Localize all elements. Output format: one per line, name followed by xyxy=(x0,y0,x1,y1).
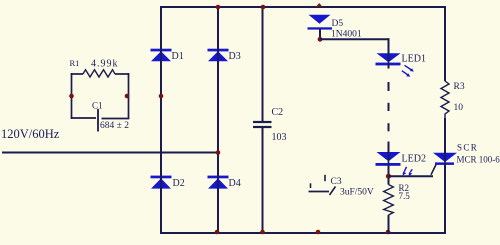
LED2 emission arrow 2 xyxy=(409,169,413,176)
capacitor C3 pin tick upper left xyxy=(310,183,312,188)
wire overlay through SCR xyxy=(444,153,446,166)
svg-text:LED1: LED1 xyxy=(402,54,426,65)
wire R3 to SCR xyxy=(444,118,446,153)
capacitor C1 box bottom-right wire xyxy=(102,118,130,120)
svg-text:C3: C3 xyxy=(331,177,342,187)
wire overlay through LED2 xyxy=(388,152,390,165)
svg-text:684 ± 2: 684 ± 2 xyxy=(100,121,129,131)
svg-text:120V/60Hz: 120V/60Hz xyxy=(1,127,60,141)
wire C2 column upper xyxy=(262,6,264,121)
svg-text:1N4001: 1N4001 xyxy=(331,30,362,40)
junction dot box left terminal xyxy=(69,94,74,99)
wire top rail xyxy=(160,6,446,8)
diode D3 xyxy=(208,49,229,62)
wire overlay through D2 xyxy=(160,175,162,189)
wire C2 column lower xyxy=(262,128,264,234)
capacitor C3 left wire xyxy=(309,191,330,193)
wire right vertical upper (top rail to R3) xyxy=(444,6,446,81)
LED1 emission arrow 1 xyxy=(405,65,414,71)
dashed wire segment 3 xyxy=(388,123,390,131)
junction dot top rail at C2 column xyxy=(261,5,266,10)
wire bottom rail xyxy=(160,232,446,234)
svg-text:C1: C1 xyxy=(92,101,103,111)
LED1 emission arrow 2 xyxy=(402,71,410,77)
R1/C1 box top-left wire stub xyxy=(71,73,83,75)
capacitor C3 curved plate xyxy=(330,187,336,196)
wire right vertical lower (SCR cathode to bottom rail) xyxy=(444,164,446,234)
resistor R3 zigzag xyxy=(441,81,449,118)
diode D4 xyxy=(208,176,229,189)
resistor R1 zigzag xyxy=(83,70,115,77)
R1/C1 box top-right wire stub xyxy=(115,73,129,75)
junction dot on left bridge column xyxy=(159,94,164,99)
capacitor C2 plate lower xyxy=(253,126,272,128)
LED2 xyxy=(376,152,401,166)
R1/C1 box left wire xyxy=(71,73,73,119)
wire overlay through D3 xyxy=(217,48,219,62)
wire R2 to bottom rail xyxy=(388,215,390,234)
wire overlay through D1 xyxy=(160,48,162,62)
junction dot bottom rail at R2 column xyxy=(386,230,391,235)
junction dot LED2/R2/gate node xyxy=(386,174,391,179)
LED2 emission arrow 1 xyxy=(403,167,407,176)
R1/C1 box right wire xyxy=(128,73,130,119)
wire LED2 cathode to R2 xyxy=(388,166,390,185)
junction dot bottom rail at C2 column xyxy=(260,230,265,235)
capacitor C2 plate upper xyxy=(253,121,272,123)
SCR Q1 xyxy=(433,153,457,165)
red triangle junction marker on top rail xyxy=(316,3,323,7)
svg-text:D3: D3 xyxy=(229,51,241,62)
junction dot box right terminal xyxy=(125,94,130,99)
LED1 xyxy=(376,53,401,65)
svg-text:103: 103 xyxy=(272,132,287,143)
wire bridge column 2 (D3/D4) xyxy=(217,6,219,234)
dashed wire segment 1 xyxy=(388,82,390,91)
svg-text:SCR: SCR xyxy=(457,143,478,153)
wire AC input (neutral) xyxy=(2,152,219,154)
capacitor C3 pin tick upper right xyxy=(324,175,326,181)
wire down to LED1 xyxy=(388,38,390,54)
junction dot bottom rail at D4 column xyxy=(215,230,220,235)
junction dot bottom rail at x=318 xyxy=(316,230,321,235)
svg-text:R1: R1 xyxy=(70,58,80,68)
capacitor C1 plate xyxy=(97,109,99,132)
svg-text:D1: D1 xyxy=(172,51,184,62)
svg-text:10: 10 xyxy=(454,103,464,113)
svg-text:7.5: 7.5 xyxy=(399,191,411,201)
svg-text:3uF/50V: 3uF/50V xyxy=(340,188,374,198)
wire LED1 cathode stub xyxy=(388,65,390,69)
svg-text:4.99k: 4.99k xyxy=(91,59,119,70)
wire overlay through D4 xyxy=(217,175,219,189)
svg-text:LED2: LED2 xyxy=(402,154,426,165)
wire SCR gate horizontal xyxy=(389,175,434,177)
svg-text:D5: D5 xyxy=(332,19,344,29)
dashed wire segment 2 xyxy=(388,103,390,111)
diode D5 xyxy=(308,15,333,30)
svg-text:D4: D4 xyxy=(229,178,241,189)
junction dot top rail at D3 column xyxy=(216,5,221,10)
wire left vertical (bridge column 1) xyxy=(160,6,162,234)
svg-text:MCR 100-6: MCR 100-6 xyxy=(457,155,500,165)
wire D5 cathode to junction xyxy=(319,30,321,41)
diode D2 xyxy=(151,176,172,189)
svg-text:D2: D2 xyxy=(173,178,185,189)
dashed wire segment 4 (into LED2) xyxy=(388,142,390,155)
diode D1 xyxy=(151,49,172,62)
wire SCR gate diagonal xyxy=(431,165,436,175)
junction dot input wire at D4 column xyxy=(216,150,221,155)
junction dot below D5 xyxy=(318,37,323,42)
resistor R2 zigzag xyxy=(384,185,394,216)
wire overlay through LED1 xyxy=(388,53,390,65)
capacitor C1 box bottom-left wire xyxy=(71,117,96,119)
svg-text:R3: R3 xyxy=(454,82,465,92)
svg-text:C2: C2 xyxy=(272,107,284,118)
wire D5 junction to LED1 column xyxy=(320,38,390,40)
